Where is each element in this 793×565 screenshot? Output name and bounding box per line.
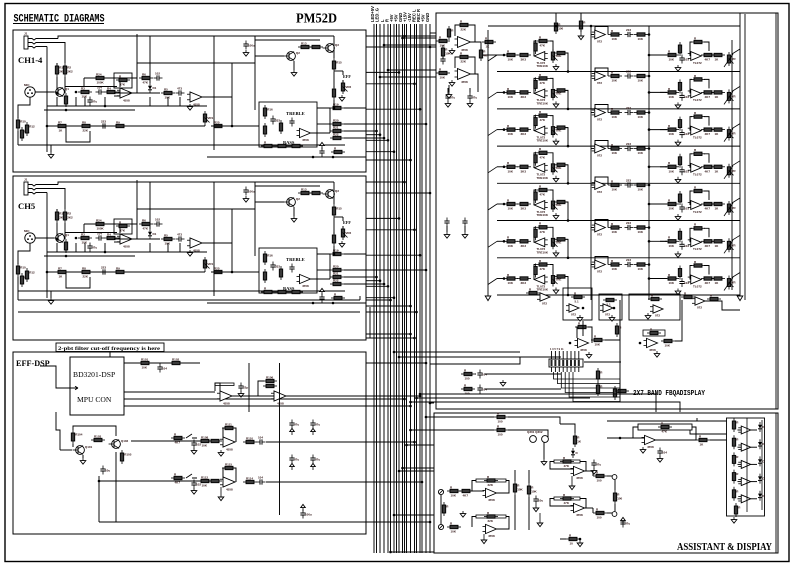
U304 fb b	[580, 499, 586, 509]
EQ row6 right capacitor C1	[679, 241, 689, 250]
svg-text:J1: J1	[24, 32, 28, 36]
mixer series resistor	[482, 36, 496, 48]
U103 fb box	[215, 383, 234, 386]
EQ row5 middle resistor R2	[634, 183, 648, 191]
CH1-4 stub x57	[56, 97, 58, 106]
CH1-4 wire R1 top	[56, 63, 58, 66]
comparator U401 in wire	[738, 429, 742, 431]
CH1-4 inner frame vertical	[136, 34, 138, 63]
svg-text:4558: 4558	[488, 498, 495, 502]
svg-text:100: 100	[597, 479, 602, 483]
EQ row6 right resistor R2	[678, 228, 681, 242]
svg-text:4558: 4558	[302, 284, 309, 288]
svg-text:223: 223	[626, 142, 631, 146]
resistor R104	[71, 430, 82, 444]
EQ row2 left band pot	[551, 86, 561, 100]
svg-text:ASSISTANT & DISPIAY: ASSISTANT & DISPIAY	[677, 542, 772, 553]
resistor R301	[447, 485, 461, 497]
EFF-DSP inner vertical wire	[279, 363, 281, 515]
supply arrow C111	[311, 428, 316, 435]
EQ row5 left op-amp	[534, 201, 549, 217]
svg-text:TL072: TL072	[693, 247, 702, 251]
EQ row1 middle resistor R1	[608, 29, 622, 41]
svg-text:4558: 4558	[123, 98, 130, 102]
ground C103	[238, 391, 244, 397]
wire u303 out3	[607, 475, 612, 477]
EQ row2 left ground	[553, 101, 559, 107]
svg-text:VR2: VR2	[345, 85, 351, 89]
CH5 ground VR2	[339, 241, 345, 247]
svg-text:2K2: 2K2	[67, 70, 73, 74]
svg-text:10K: 10K	[612, 37, 618, 41]
CH5 resistor R5	[161, 233, 175, 245]
svg-text:47u: 47u	[472, 96, 477, 100]
supply resistor Rs1	[554, 20, 563, 34]
CH1-4 resistor R10	[16, 117, 26, 131]
U305 cap ground	[657, 456, 663, 462]
svg-text:10K: 10K	[531, 490, 537, 494]
CH1-4 bus junction 11	[393, 150, 396, 153]
svg-text:3K3: 3K3	[521, 58, 527, 62]
EQ row6 left row lower wire	[497, 257, 740, 259]
EQ row5 middle junction out	[648, 184, 651, 187]
svg-text:D1: D1	[153, 232, 157, 236]
bus to EQ wire L	[430, 32, 437, 34]
EQ row5 left row lower wire	[497, 220, 740, 222]
CH1-4 bus wire 12	[366, 159, 411, 161]
EQ row3 middle junction out	[648, 111, 651, 114]
CH5 wire eff	[342, 226, 344, 229]
CH1-4 bus junction 8	[379, 133, 382, 136]
svg-text:TL072: TL072	[693, 61, 702, 65]
wire top bb right	[508, 417, 560, 424]
CH1-4 jack wire c	[40, 46, 47, 48]
wire top bb a	[434, 416, 494, 418]
svg-text:10K: 10K	[669, 58, 675, 62]
supply capacitor C110	[289, 420, 299, 429]
wire into BD box	[40, 366, 70, 388]
EQ row1 left row lower wire	[497, 71, 740, 73]
CH5 wire corner A	[359, 296, 361, 300]
CH5 wire u2 out	[202, 242, 232, 244]
EQ row4 left resistor R4	[554, 163, 568, 166]
CH1-4 ground VR2	[339, 95, 345, 101]
resistor R111	[222, 422, 236, 429]
EQ row2 right ground	[675, 102, 681, 108]
arrow C304	[621, 517, 626, 524]
CH5 resistor R19	[330, 248, 344, 255]
CH1-4 inner frame wire	[114, 63, 137, 93]
wire between jacks	[614, 480, 616, 490]
CH5 bus wire 11	[366, 297, 394, 299]
CH1-4 stub x150	[149, 97, 151, 106]
EQ row4 left ground	[553, 176, 559, 182]
bus wire 6	[390, 24, 392, 553]
EQ row5 right op-amp	[688, 201, 702, 214]
mute switch B capacitor	[191, 480, 201, 489]
svg-text:223: 223	[626, 258, 631, 262]
svg-text:MIC: MIC	[24, 83, 30, 87]
U305 in wire	[607, 437, 644, 439]
left summing resistor	[526, 287, 540, 294]
capacitor C104	[257, 436, 266, 445]
summing op-amp U210	[566, 304, 579, 317]
EQ row2 left resistor R1	[504, 87, 518, 99]
CH5 long wire B	[18, 311, 360, 313]
EQ row2 middle resistor R1	[608, 70, 622, 82]
svg-text:5.1: 5.1	[607, 303, 612, 307]
CH1-4 wire top right	[255, 35, 334, 37]
CH1-4 wire jack to divider	[46, 47, 48, 153]
svg-text:10K: 10K	[508, 132, 514, 136]
EQ row5 left out wire	[565, 202, 568, 221]
EQ row4 right resistor R1	[665, 161, 679, 173]
CH1-4 wire q2 emitter	[293, 61, 295, 70]
CH5 gain pot VR1	[203, 257, 213, 271]
EQ row1 right resistor R3	[701, 53, 715, 61]
svg-text:4558: 4558	[123, 244, 130, 248]
CH1-4 wire out top	[333, 36, 335, 41]
svg-text:VR2: VR2	[345, 231, 351, 235]
CH1-4 resistor R22	[330, 132, 344, 139]
svg-text:4K7: 4K7	[705, 281, 711, 285]
CH5 capacitor C4	[100, 266, 109, 275]
EQ row4 right op-amp	[688, 163, 702, 176]
EQ row4 left out wire	[565, 165, 568, 184]
CH1-4 bus junction 5	[419, 108, 422, 111]
CH5 bus junction 3	[398, 217, 401, 220]
EQ row6 right rail tap diagonal	[732, 235, 740, 240]
EQ row2 middle fb wire	[595, 68, 608, 76]
EFF-DSP bus wire 1	[366, 362, 426, 364]
EFF-DSP inner bottom wire	[99, 521, 366, 523]
EQ row5 left feedback resistor	[536, 184, 550, 196]
CH5 bus wire 14	[366, 311, 417, 313]
svg-text:104: 104	[258, 476, 263, 480]
capacitor C103	[238, 383, 248, 392]
op-amp U303	[571, 466, 585, 480]
U216 feedback box	[643, 330, 665, 336]
bus right wire 8	[399, 470, 434, 472]
resistor R250 near bus	[441, 45, 451, 59]
EQ row2 left feedback resistor	[536, 73, 550, 85]
CH5 bus wire 5	[366, 254, 420, 256]
display bus wire2	[596, 394, 656, 412]
wire j10 垂直	[440, 495, 442, 524]
EQ row4 right feedback wire	[690, 154, 692, 168]
EFF-DSP link wire A	[131, 440, 201, 442]
U303 fb b	[580, 462, 586, 472]
CH5 tone resistor Rt4	[331, 292, 345, 299]
svg-text:47u: 47u	[294, 458, 299, 462]
supply stub top2	[580, 13, 582, 20]
EQ row4 left rail tap diagonal	[488, 167, 497, 173]
svg-text:4558: 4558	[488, 534, 495, 538]
EQ row7 right feedback wire	[690, 266, 692, 280]
svg-text:10K: 10K	[612, 151, 618, 155]
CH1-4 bus junction 7	[375, 130, 378, 133]
CH5 wire vert 150	[149, 182, 151, 229]
CH1-4 resistor R15	[332, 58, 342, 72]
EQ row4 right rail tap diagonal	[732, 161, 740, 166]
connector wire bundle	[554, 372, 621, 402]
comparator U401	[738, 426, 751, 434]
U302 ground arrow	[481, 534, 487, 544]
capacitor C304	[620, 519, 630, 528]
svg-text:3K3: 3K3	[521, 132, 527, 136]
comparator U402 output diode	[758, 439, 766, 449]
svg-text:072: 072	[597, 81, 602, 85]
wire eff dsp inner	[56, 412, 60, 450]
EQ row5 right resistor R2	[678, 191, 681, 205]
CH5 resistor Rfb	[116, 220, 130, 232]
EFF-DSP block outline	[13, 352, 366, 534]
CH5 resistor R17	[263, 269, 266, 283]
svg-text:10K: 10K	[665, 344, 671, 348]
wire note to MPU	[109, 352, 111, 358]
CH1-4 wire xlr out	[35, 91, 54, 93]
summing op-amp U211	[600, 304, 613, 317]
EQ row7 middle fb wire	[595, 257, 608, 265]
CH1-4 resistor R19	[330, 102, 344, 109]
CH1-4 resistor Rfb	[116, 74, 130, 86]
CH1-4 resistor R7	[55, 120, 69, 132]
svg-text:4K7: 4K7	[705, 207, 711, 211]
CH5 stub x66	[65, 243, 67, 252]
EFF-DSP inner left wire	[98, 476, 100, 522]
svg-text:10K: 10K	[669, 244, 675, 248]
CH1-4 channel vertical wire	[213, 36, 215, 150]
CH1-4 capacitor C7	[289, 118, 294, 127]
EQ row2 right feedback wire b	[704, 79, 709, 88]
ground C303	[591, 468, 597, 474]
CH5 tone control sub-box	[259, 248, 317, 293]
EQ row7 left row lower wire	[497, 294, 740, 296]
EQ row7 right pot wiper diagonal	[724, 278, 733, 291]
EQ row3 left lower junction	[567, 145, 570, 148]
CH5 resistor R9	[113, 266, 127, 273]
EQ row6 right band pot	[727, 238, 736, 252]
svg-text:4558: 4558	[647, 445, 654, 449]
svg-text:10K: 10K	[445, 52, 451, 56]
bus junction in4	[379, 76, 382, 79]
EQ row5 middle fb wire	[595, 177, 608, 185]
resistor R109	[208, 439, 222, 442]
svg-text:10K: 10K	[142, 366, 148, 370]
bus right wire 1	[394, 351, 520, 353]
EQ mid rail B	[648, 26, 650, 300]
EQ row4 left junction	[503, 166, 506, 169]
summing down wire	[619, 321, 621, 402]
svg-text:4558: 4558	[576, 476, 583, 480]
CH1-4 op-amp U2 tone	[297, 128, 311, 142]
comparator U403 output diode	[758, 456, 766, 466]
svg-text:100: 100	[597, 516, 602, 520]
CH1-4 junction lower	[231, 125, 234, 128]
wire BD data 3	[124, 405, 366, 407]
svg-text:TRE10K: TRE10K	[537, 64, 549, 68]
summing ground C	[645, 313, 651, 319]
wire q101 top	[73, 426, 116, 436]
CH1-4 resistor R17	[263, 123, 266, 137]
svg-text:TREBLE: TREBLE	[286, 257, 305, 262]
summing fb resistor C	[648, 293, 662, 300]
CH1-4 resistor R20	[330, 118, 344, 125]
CH5 bus wire 9	[366, 283, 384, 285]
CH5 stub x150	[149, 243, 151, 252]
svg-text:223: 223	[626, 179, 631, 183]
op-amp U106	[220, 477, 235, 491]
output jack circle J13	[612, 512, 617, 517]
EQ row1 left out wire	[565, 53, 568, 72]
CH5 resistor R25	[211, 266, 225, 273]
EQ row3 left row lower wire	[497, 145, 740, 147]
svg-text:GND: GND	[425, 13, 430, 22]
CH5 junction r2a	[75, 237, 78, 240]
CH5 out wire 2	[344, 269, 366, 271]
CH1-4 wire fb lower	[83, 78, 85, 87]
mute switch B series resistor	[171, 472, 185, 484]
svg-text:4K7: 4K7	[705, 132, 711, 136]
EFF-DSP vertical feed wire	[248, 363, 250, 412]
EQ row3 right resistor R2	[678, 117, 681, 131]
svg-text:R104: R104	[75, 433, 83, 437]
EQ row2 middle junction out	[648, 75, 651, 78]
bus right junction 5	[409, 429, 412, 432]
CH1-4 bus junction 4	[413, 83, 416, 86]
svg-text:10K: 10K	[612, 230, 618, 234]
EQ row1 right resistor R4	[711, 53, 725, 61]
EQ row4 link wire	[649, 166, 667, 168]
svg-text:R13: R13	[301, 187, 307, 191]
svg-text:TRE10K: TRE10K	[537, 139, 549, 143]
EFF-DSP bus junction 5	[413, 441, 416, 444]
BD3201-DSP / MPU CON box	[70, 357, 124, 415]
resistor R235	[613, 386, 620, 400]
EQ row5 left resistor R4	[554, 200, 568, 203]
EQ row6 right feedback wire b	[704, 228, 709, 237]
wire q101 r	[72, 444, 74, 447]
resistor R236	[615, 389, 629, 392]
EFF-DSP bus junction 1	[425, 362, 428, 365]
svg-text:10K: 10K	[638, 230, 644, 234]
EQ row5 middle input wire	[591, 184, 594, 186]
EQ row5 left band pot	[551, 198, 561, 212]
connector feed wire2	[430, 357, 520, 364]
CH5 bus junction 7	[375, 276, 378, 279]
CH1-4 mid row junction	[65, 109, 68, 112]
EQ row3 middle capacitor C1	[625, 106, 634, 115]
CH1-4 wire u2 out	[202, 96, 232, 98]
resistor R313	[593, 470, 607, 482]
EQ row3 right feedback wire b	[704, 117, 709, 126]
CH5 wire out top	[333, 182, 335, 187]
CH5 tone junction b	[332, 302, 335, 305]
EQ row5 middle capacitor C1	[625, 179, 634, 188]
svg-text:4558: 4558	[226, 447, 233, 451]
CH5 signal rail mid	[205, 242, 232, 244]
mixer op-amp U201B	[455, 69, 471, 84]
svg-text:TRE10K: TRE10K	[537, 176, 549, 180]
CH5 transistor Q3	[323, 189, 340, 198]
op-amp U304	[571, 503, 585, 517]
svg-text:47K: 47K	[540, 81, 546, 85]
EQ row7 left resistor R1	[504, 273, 518, 285]
svg-text:47u: 47u	[625, 522, 630, 526]
wire mid vert b2	[528, 497, 530, 530]
CH1-4 wire eff in	[334, 70, 343, 72]
svg-text:10K: 10K	[612, 79, 618, 83]
U302 fb resistor	[484, 511, 498, 523]
bus right wire 2	[399, 356, 520, 358]
EQ row3 middle resistor R1	[608, 107, 622, 119]
resistor R311	[494, 424, 508, 436]
CH1-4 bus wire 5	[366, 108, 420, 110]
supply arrow C113	[311, 463, 316, 470]
svg-text:CH1-4: CH1-4	[18, 55, 43, 65]
wire q101 e	[82, 455, 84, 458]
CH1-4 resistor R8	[79, 120, 93, 132]
comparator U405	[738, 495, 751, 503]
resistor R115	[222, 462, 236, 469]
bus right junction 6	[405, 444, 408, 447]
EQ row1 left op-amp	[534, 52, 549, 68]
CH5 resistor R26	[332, 232, 335, 246]
EQ row7 left op-amp	[534, 275, 549, 291]
EQ row5 link junction	[648, 203, 651, 206]
comparator U404 in wire	[738, 481, 742, 483]
CH1-4 wire bias r	[333, 72, 335, 80]
svg-text:10K: 10K	[669, 207, 675, 211]
CH5 pot VR2	[341, 226, 351, 240]
EQ row4 right resistor R2	[678, 154, 681, 168]
EQ row5 right resistor R1	[665, 198, 679, 210]
bus to EQ wire in1	[403, 37, 437, 39]
CH5 bus junction 4	[413, 229, 416, 232]
display driver bottom resistor	[734, 503, 741, 517]
svg-text:R108: R108	[201, 435, 209, 439]
EQ row2 right rail tap diagonal	[732, 86, 740, 91]
U303 ground arrow	[569, 476, 575, 490]
display connector CN1	[549, 359, 583, 367]
CH5 bus wire 8	[366, 280, 380, 282]
post op-amp U212	[575, 338, 589, 352]
resistor R314	[593, 507, 607, 519]
bus right wire 6	[407, 444, 435, 446]
svg-text:10K: 10K	[202, 444, 208, 448]
CH5 wire y63b	[137, 208, 232, 210]
svg-text:R24: R24	[96, 218, 102, 222]
CH5 wire jack to divider	[46, 193, 48, 299]
CH5 diode D1	[148, 229, 157, 239]
CH5 capacitor C3	[154, 218, 163, 227]
EQ row5 left feedback wire b	[550, 190, 553, 200]
EQ row4 middle resistor R1	[608, 143, 622, 155]
CH1-4 bus wire 2	[366, 46, 430, 48]
CH1-4 transistor Q3	[323, 43, 340, 52]
CH1-4 resistor R2	[63, 63, 73, 77]
left summing op-amp U213	[537, 293, 550, 306]
CH5 tone resistor Rt2	[275, 290, 289, 293]
wire bottom conn	[115, 470, 117, 522]
CH1-4 wire into tone	[232, 97, 259, 126]
CH5 wire fb1	[120, 209, 255, 233]
svg-text:R115: R115	[225, 462, 232, 466]
svg-text:EFF: EFF	[343, 220, 351, 225]
CH5 stub x180	[179, 243, 181, 252]
EQ row3 middle resistor R2	[634, 111, 648, 119]
svg-text:R22: R22	[333, 132, 339, 136]
